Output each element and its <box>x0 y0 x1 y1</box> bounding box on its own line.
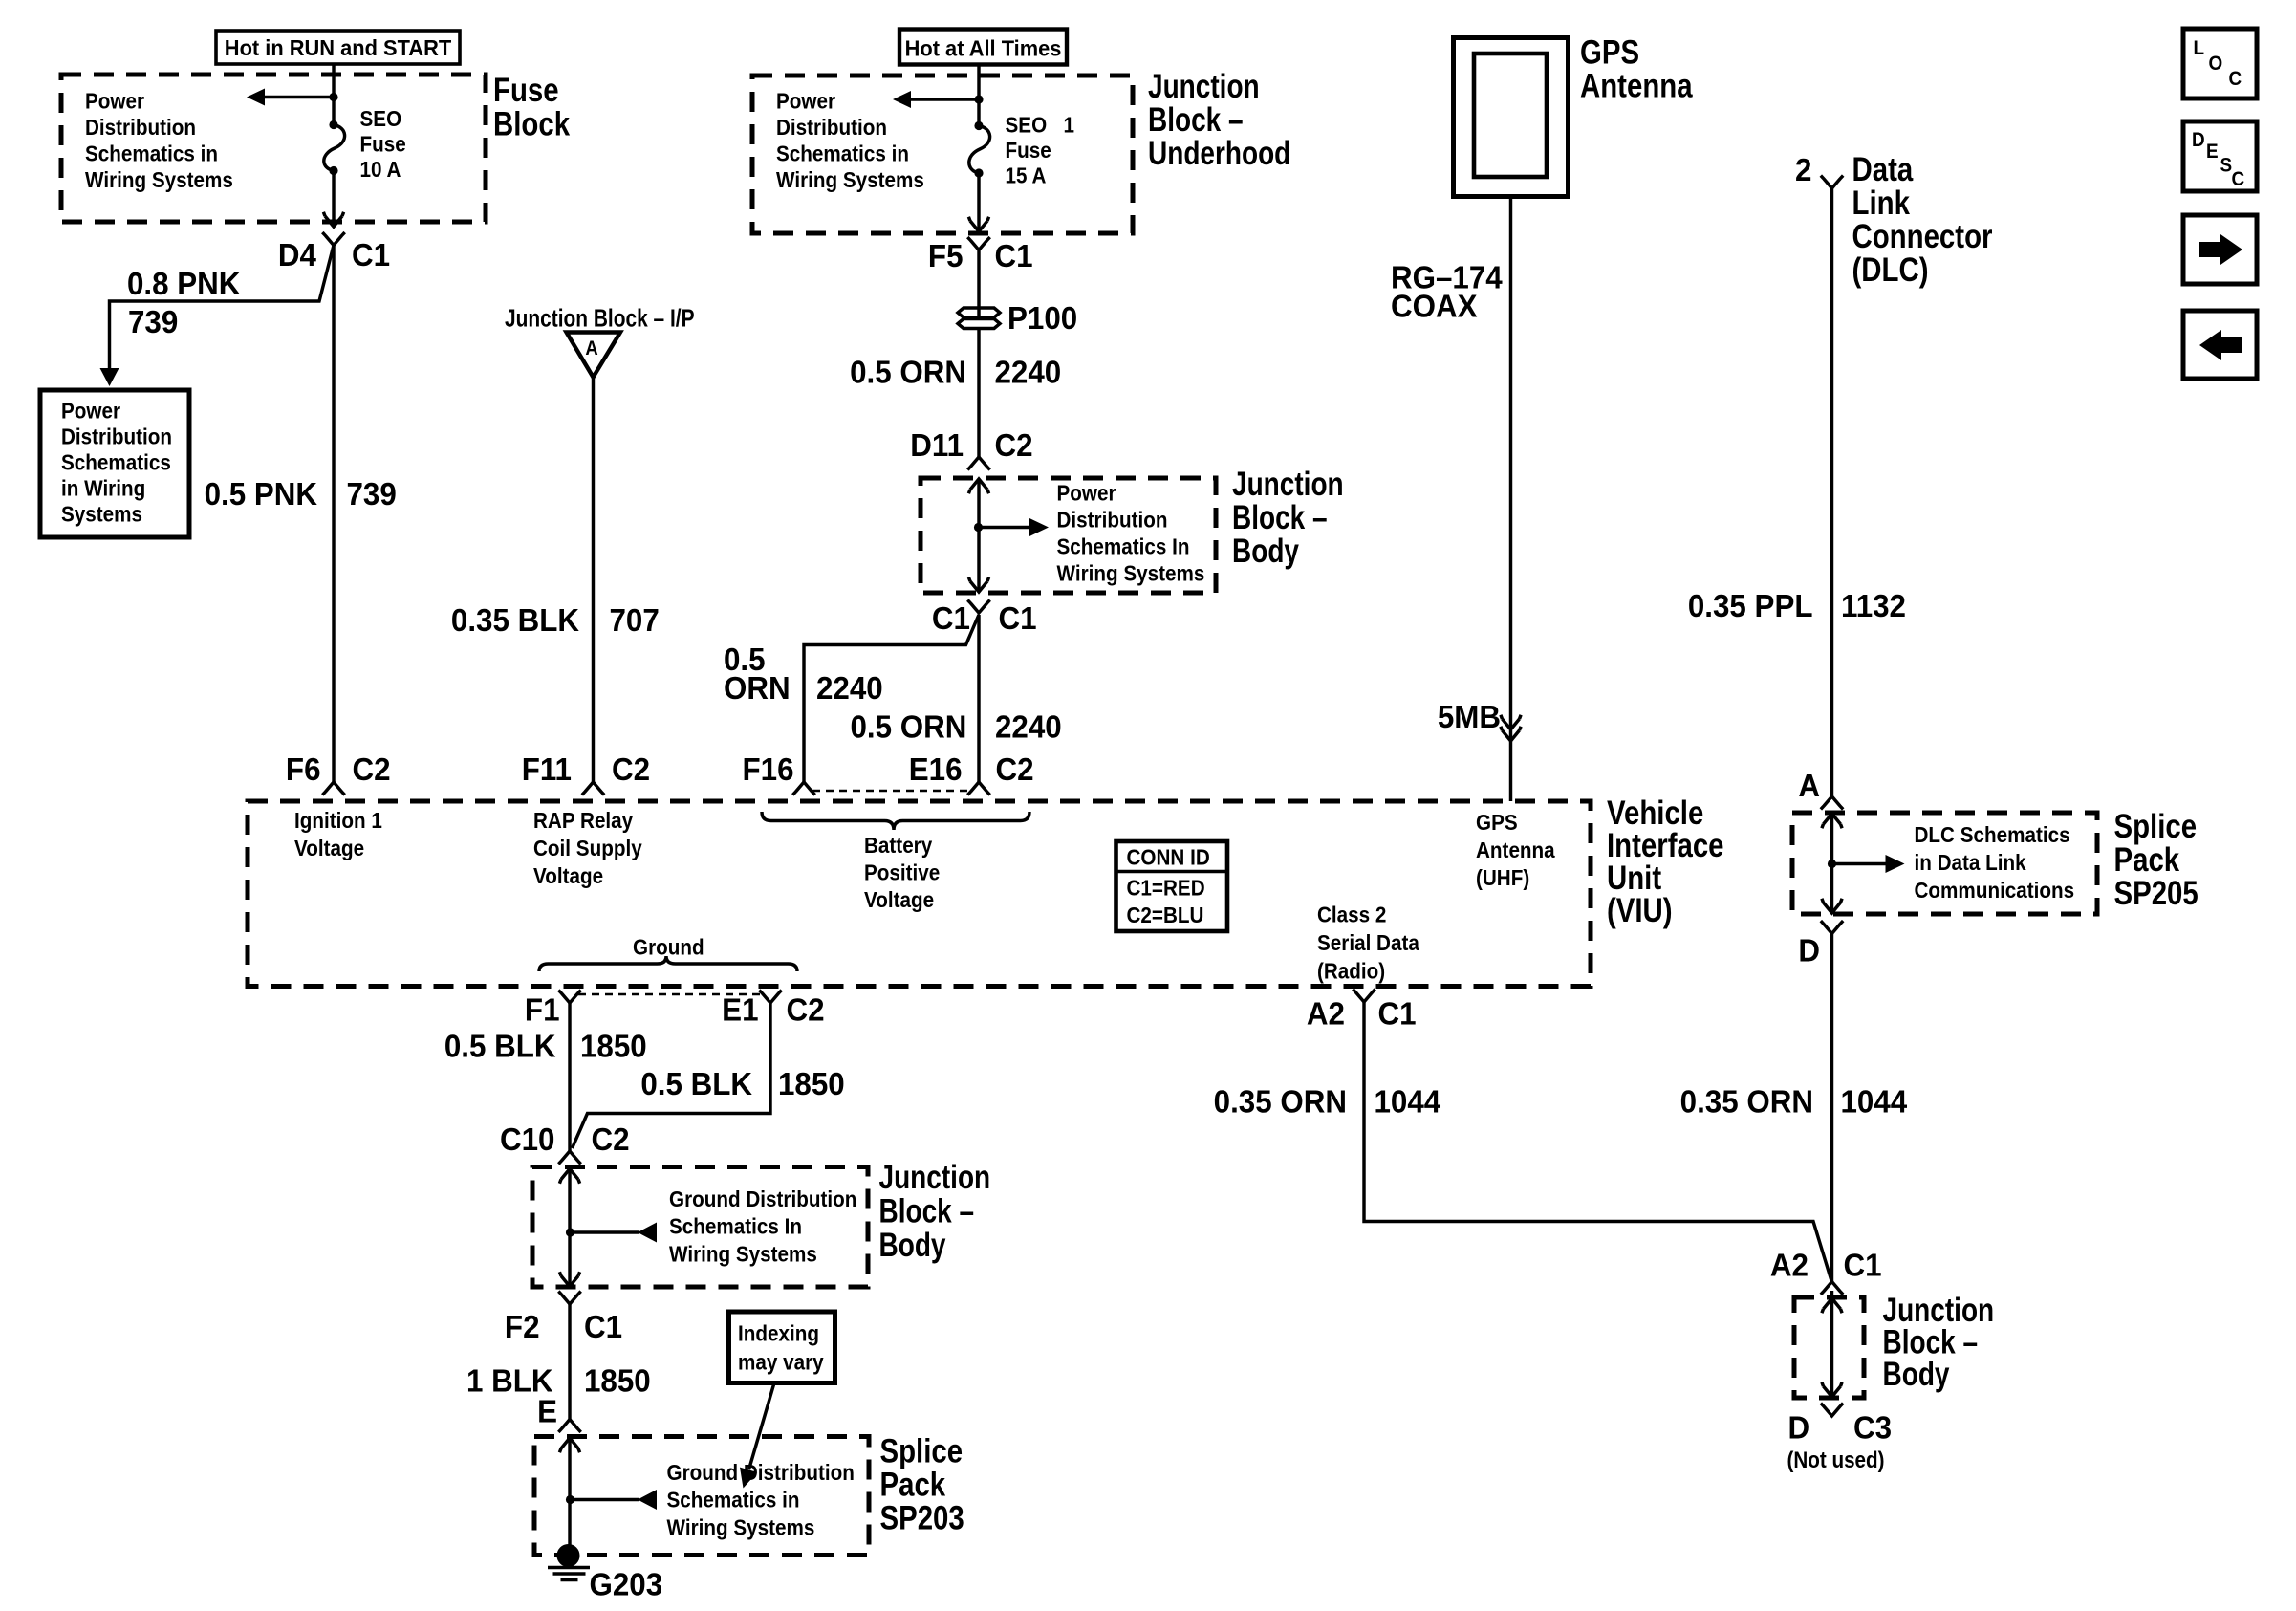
junction block body label (ground) <box>879 1158 991 1264</box>
arrow from indexing note to splice pack <box>740 1383 774 1489</box>
SP203 note "Ground Distribution Schematics in Wiring Systems" <box>667 1460 855 1540</box>
wire label 0.5 BLK 1850 (E1) <box>640 1066 844 1101</box>
svg-text:Class 2: Class 2 <box>1317 902 1386 927</box>
fuse SEO 1 15 A symbol <box>969 121 990 178</box>
grommet pass-through P100 symbol <box>958 307 1000 331</box>
svg-text:Wiring Systems: Wiring Systems <box>85 167 233 193</box>
svg-text:2240: 2240 <box>816 670 883 706</box>
wire label 0.35 BLK 707 <box>451 602 660 638</box>
wire label 0.5 PNK 739 <box>205 476 397 512</box>
svg-text:CONN ID: CONN ID <box>1127 844 1210 870</box>
signal 5MB direction arrows <box>1501 715 1521 741</box>
arrow from ground distribution schematics note (SP203) <box>571 1490 658 1510</box>
svg-text:Link: Link <box>1852 185 1910 222</box>
svg-text:1044: 1044 <box>1375 1084 1441 1120</box>
svg-text:Block –: Block – <box>1232 498 1328 536</box>
wire connector F5 to pass-through P100 <box>977 250 980 308</box>
data link connector label <box>1852 151 1993 289</box>
svg-text:Hot at All Times: Hot at All Times <box>905 36 1062 61</box>
wire 1 BLK 1850 from F2 down to splice E <box>568 1304 571 1420</box>
connector D / C3 (not used) <box>1788 1404 1893 1446</box>
svg-text:Hot in RUN and START: Hot in RUN and START <box>225 35 452 60</box>
svg-text:A: A <box>585 337 597 359</box>
connector F11 / C2 at VIU <box>522 751 650 795</box>
svg-text:A: A <box>1798 768 1820 803</box>
junction dot in SP203 <box>566 1495 574 1504</box>
GPS antenna symbol (double box) <box>1454 38 1569 197</box>
svg-text:2: 2 <box>1795 152 1811 187</box>
power distribution schematics reference box <box>40 390 189 537</box>
wire label 0.5 ORN 2240 (branch, stacked) <box>724 642 883 706</box>
fuse block note "Power Distribution Schematics in Wiring Systems" <box>85 88 233 192</box>
svg-text:Power: Power <box>61 398 120 424</box>
connector F5 / C1 (underhood output) <box>928 237 1033 273</box>
wire RG-174 coax down to VIU <box>1509 197 1512 802</box>
splice pack SP203 dashed outline <box>534 1437 869 1556</box>
up arrow inside ground junction block <box>559 1169 579 1184</box>
up arrow inside SP203 <box>559 1438 579 1452</box>
wire label 0.5 ORN 2240 (lower) <box>851 709 1062 745</box>
svg-text:C: C <box>2232 168 2245 190</box>
junction dot in body junction block <box>974 523 983 532</box>
label box "Hot in RUN and START" <box>216 31 460 64</box>
svg-text:Ignition 1: Ignition 1 <box>294 808 382 834</box>
note (Not used) <box>1787 1448 1885 1473</box>
VIU pin note GPS Antenna (UHF) <box>1476 810 1555 891</box>
VIU pin note Class 2 Serial Data (Radio) <box>1317 902 1420 984</box>
connector F1 at VIU bottom <box>525 991 581 1028</box>
svg-text:F16: F16 <box>743 751 794 787</box>
svg-text:0.5 BLK: 0.5 BLK <box>640 1066 752 1101</box>
junction block I/P triangle A symbol <box>567 333 621 378</box>
svg-text:C2: C2 <box>787 992 825 1028</box>
svg-text:Schematics: Schematics <box>61 449 171 475</box>
svg-text:1: 1 <box>1064 112 1075 138</box>
label box "Hot at All Times" <box>899 30 1067 65</box>
svg-text:Body: Body <box>879 1226 946 1264</box>
svg-text:Body: Body <box>1232 532 1299 570</box>
fuse SEO 10 A symbol <box>324 120 345 175</box>
svg-text:(DLC): (DLC) <box>1852 251 1929 289</box>
wire label 0.5 ORN 2240 (upper) <box>850 355 1061 390</box>
svg-text:0.5 ORN: 0.5 ORN <box>851 709 967 745</box>
svg-text:1850: 1850 <box>580 1029 647 1064</box>
connector A at splice pack SP205 <box>1798 768 1843 809</box>
connector C10 / C2 (body junction block ground) <box>500 1121 630 1164</box>
svg-text:E: E <box>2206 141 2219 163</box>
junction dot in SP205 <box>1828 860 1836 868</box>
svg-text:Battery: Battery <box>864 833 933 859</box>
underhood note "Power Distribution Schematics in Wiring Systems" <box>776 88 924 192</box>
SP205 note "DLC Schematics in Data Link Communications" <box>1915 822 2075 903</box>
svg-text:C1: C1 <box>932 600 970 636</box>
connector E at splice pack SP203 <box>537 1394 581 1432</box>
connector A2 / C1 at VIU bottom <box>1307 990 1417 1032</box>
svg-text:1044: 1044 <box>1841 1084 1908 1120</box>
wire label 0.35 ORN 1044 (right) <box>1680 1084 1908 1120</box>
GPS antenna label <box>1580 33 1694 104</box>
VIU pin note Battery Positive Voltage <box>864 833 940 913</box>
vehicle interface unit dashed outline <box>248 801 1591 987</box>
svg-text:2240: 2240 <box>995 355 1062 390</box>
wire 0.5 PNK 739 down to VIU pin F6 <box>332 246 335 783</box>
svg-text:C2: C2 <box>592 1121 630 1157</box>
fuse block dashed outline <box>61 75 486 222</box>
svg-text:Schematics in: Schematics in <box>667 1487 800 1513</box>
svg-text:may vary: may vary <box>738 1349 824 1375</box>
junction block body dashed outline (bottom right) <box>1794 1297 1864 1398</box>
svg-text:DLC Schematics: DLC Schematics <box>1915 822 2070 848</box>
svg-text:RAP Relay: RAP Relay <box>533 808 634 834</box>
junction block body dashed outline (power) <box>921 478 1216 593</box>
svg-text:Distribution: Distribution <box>85 115 196 141</box>
svg-text:Underhood: Underhood <box>1148 134 1290 172</box>
arrow to power distribution schematics (left) <box>247 89 334 106</box>
svg-text:S: S <box>2220 154 2233 176</box>
svg-text:739: 739 <box>347 476 397 512</box>
wire 0.35 BLK 707 down to VIU pin F11 <box>592 378 595 783</box>
svg-text:Schematics in: Schematics in <box>85 141 218 166</box>
svg-text:Power: Power <box>1057 480 1116 506</box>
svg-text:Fuse: Fuse <box>360 131 406 157</box>
arrow to DLC schematics <box>1832 855 1905 873</box>
svg-text:D: D <box>2192 129 2205 151</box>
svg-text:Coil Supply: Coil Supply <box>533 836 642 861</box>
connector D11 / C2 (body junction block top) <box>910 427 1032 469</box>
coax cable label RG-174 COAX <box>1391 260 1503 324</box>
svg-text:O: O <box>2209 53 2223 75</box>
svg-text:D: D <box>1788 1410 1810 1446</box>
svg-text:C1=RED: C1=RED <box>1127 875 1205 901</box>
svg-text:C1: C1 <box>352 237 390 272</box>
svg-text:A2: A2 <box>1307 996 1345 1032</box>
junction block body label (power) <box>1232 465 1344 570</box>
svg-text:2240: 2240 <box>995 709 1062 745</box>
svg-text:Fuse: Fuse <box>493 72 559 109</box>
svg-text:F2: F2 <box>505 1309 540 1344</box>
svg-text:Distribution: Distribution <box>776 115 887 141</box>
junction block underhood dashed outline <box>752 76 1133 233</box>
wire through SP203 to ground <box>568 1438 571 1556</box>
wire 0.35 PPL 1132 from DLC down to splice pack <box>1830 188 1833 797</box>
icon box DESC <box>2183 121 2257 191</box>
connector D4 / C1 (fuse block output) <box>278 232 390 272</box>
svg-text:Power: Power <box>85 88 144 114</box>
svg-text:F5: F5 <box>928 238 964 273</box>
arrow to power distribution schematics (body) <box>979 518 1050 536</box>
svg-text:C3: C3 <box>1853 1410 1892 1446</box>
pass-through label P100 <box>1007 300 1077 336</box>
svg-text:P100: P100 <box>1007 300 1077 336</box>
svg-text:Block –: Block – <box>879 1191 975 1230</box>
svg-text:Voltage: Voltage <box>864 887 934 913</box>
up arrow inside SP205 <box>1822 814 1842 828</box>
svg-text:Junction: Junction <box>1232 465 1344 503</box>
svg-text:1132: 1132 <box>1841 588 1906 623</box>
wire through ground junction block <box>568 1169 571 1287</box>
svg-text:C2: C2 <box>995 427 1033 463</box>
svg-text:Body: Body <box>1883 1355 1950 1393</box>
svg-text:E: E <box>537 1394 557 1429</box>
svg-text:Fuse: Fuse <box>1006 138 1051 163</box>
svg-text:0.5 BLK: 0.5 BLK <box>444 1029 556 1064</box>
splice pack SP205 dashed outline <box>1792 813 2097 914</box>
svg-text:Splice: Splice <box>880 1432 964 1469</box>
svg-text:E1: E1 <box>722 992 758 1028</box>
vehicle interface unit label <box>1607 795 1724 929</box>
icon box previous arrow <box>2183 311 2257 379</box>
brace battery positive voltage <box>762 812 1029 830</box>
svg-text:E16: E16 <box>909 751 963 787</box>
svg-text:Serial Data: Serial Data <box>1317 930 1420 956</box>
svg-text:in Wiring: in Wiring <box>61 475 145 501</box>
connector E16 / C2 at VIU <box>909 751 1034 795</box>
signal label 5MB <box>1438 699 1501 734</box>
arrowhead into power distribution box <box>100 368 119 386</box>
down arrow at ground junction block bottom <box>559 1272 579 1286</box>
connector A2 / C1 at body junction block <box>1770 1248 1882 1295</box>
svg-text:ORN: ORN <box>724 670 791 706</box>
svg-text:0.8 PNK: 0.8 PNK <box>127 266 240 301</box>
wire 0.5 BLK 1850 from F1 down to C10 <box>568 1003 571 1152</box>
svg-text:Schematics in: Schematics in <box>776 141 909 166</box>
wire through bottom right junction block <box>1822 1291 1842 1397</box>
ground G203 symbol <box>548 1544 590 1580</box>
svg-text:0.5 PNK: 0.5 PNK <box>205 476 317 512</box>
svg-text:SEO: SEO <box>1006 112 1048 138</box>
svg-text:0.35 ORN: 0.35 ORN <box>1214 1084 1347 1120</box>
svg-text:GPS: GPS <box>1580 33 1639 71</box>
wire through SP205 <box>1830 814 1833 913</box>
svg-text:(Radio): (Radio) <box>1317 958 1385 984</box>
connector id legend box CONN ID <box>1116 841 1228 931</box>
wire label 0.35 ORN 1044 (left) <box>1214 1084 1441 1120</box>
junction dot on battery feed <box>974 95 983 103</box>
up arrow inside body junction block <box>968 479 988 493</box>
svg-text:GPS: GPS <box>1476 810 1518 836</box>
svg-text:D11: D11 <box>910 427 964 463</box>
svg-text:Wiring Systems: Wiring Systems <box>1057 560 1205 586</box>
svg-text:C2: C2 <box>353 751 391 787</box>
svg-text:0.35 BLK: 0.35 BLK <box>451 602 579 638</box>
VIU note Ground <box>633 934 704 960</box>
svg-text:0.35 ORN: 0.35 ORN <box>1680 1084 1813 1120</box>
svg-text:F1: F1 <box>525 992 560 1028</box>
svg-text:F6: F6 <box>286 751 321 787</box>
svg-text:L: L <box>2194 37 2205 59</box>
wire 0.5 BLK 1850 from E1 joining C10 <box>573 1003 771 1149</box>
svg-text:A2: A2 <box>1770 1248 1809 1283</box>
arrow from ground distribution schematics note <box>571 1223 658 1243</box>
wire label 0.5 BLK 1850 (F1) <box>444 1029 647 1064</box>
splice pack SP203 label <box>880 1432 964 1536</box>
wire 0.5 ORN 2240 down to connector D11 <box>977 331 980 457</box>
connector F6 / C2 at VIU <box>286 751 391 795</box>
svg-text:Wiring Systems: Wiring Systems <box>669 1241 817 1267</box>
junction dot on ignition feed <box>329 93 337 101</box>
wire label 0.8 PNK 739 <box>127 266 240 339</box>
pin 2 label of DLC <box>1795 152 1811 187</box>
svg-text:F11: F11 <box>522 751 572 787</box>
junction block body label (bottom right) <box>1883 1291 1995 1393</box>
svg-text:1850: 1850 <box>584 1363 651 1399</box>
svg-text:Junction: Junction <box>1148 67 1260 105</box>
svg-text:C: C <box>2229 68 2242 90</box>
svg-text:G203: G203 <box>590 1567 663 1602</box>
svg-text:Antenna: Antenna <box>1476 838 1555 863</box>
svg-text:(UHF): (UHF) <box>1476 865 1529 891</box>
body junction note "Power Distribution Schematics In Wiring Systems" <box>1057 480 1205 586</box>
wire through body junction block <box>977 479 980 592</box>
svg-text:Pack: Pack <box>880 1466 946 1503</box>
svg-text:C1: C1 <box>1378 996 1417 1032</box>
wire branch 0.5 ORN 2240 to VIU pin F16 <box>804 615 979 782</box>
svg-text:(Not used): (Not used) <box>1787 1448 1885 1473</box>
down arrow at body junction block bottom <box>968 577 988 592</box>
fuse SEO 1 15 A value label <box>1006 112 1075 188</box>
svg-text:0.5 ORN: 0.5 ORN <box>850 355 966 390</box>
svg-text:Indexing: Indexing <box>738 1320 819 1346</box>
svg-text:SP205: SP205 <box>2114 875 2199 912</box>
wire 0.8 PNK 739 branch to power distribution <box>110 246 335 369</box>
ground label G203 <box>590 1567 663 1602</box>
svg-text:Ground Distribution: Ground Distribution <box>667 1460 855 1486</box>
splice pack SP205 label <box>2114 808 2199 912</box>
svg-text:C10: C10 <box>500 1121 554 1157</box>
arrow to power distribution schematics (middle) <box>893 91 979 108</box>
svg-text:Antenna: Antenna <box>1580 67 1694 104</box>
svg-text:Wiring Systems: Wiring Systems <box>776 167 924 193</box>
svg-text:739: 739 <box>128 304 178 339</box>
down arrow at SP205 bottom <box>1822 899 1842 913</box>
connector D below SP205 <box>1798 921 1843 969</box>
icon box next arrow <box>2183 215 2257 284</box>
brace ground <box>539 956 797 971</box>
svg-text:0.35 PPL: 0.35 PPL <box>1688 588 1813 623</box>
svg-text:Block: Block <box>493 105 570 142</box>
svg-text:707: 707 <box>610 602 660 638</box>
svg-text:Block –: Block – <box>1148 100 1244 139</box>
svg-text:SP203: SP203 <box>880 1499 964 1536</box>
junction block I/P label <box>505 305 695 332</box>
wire fuse output to connector D4 <box>323 171 343 228</box>
connector C1 / C1 (body junction block bottom) <box>932 600 1037 637</box>
svg-text:Connector: Connector <box>1852 218 1993 255</box>
svg-text:Voltage: Voltage <box>533 863 603 889</box>
svg-text:15 A: 15 A <box>1006 163 1047 188</box>
svg-text:C1: C1 <box>999 600 1037 636</box>
wire 0.35 ORN 1044 from VIU A2 to body junction block <box>1364 1002 1831 1280</box>
svg-text:Communications: Communications <box>1915 878 2075 903</box>
junction block underhood label <box>1148 67 1290 172</box>
svg-text:C2: C2 <box>996 751 1034 787</box>
note box "Indexing may vary" <box>729 1312 835 1383</box>
wire from Hot in RUN feed down to fuse <box>332 64 335 125</box>
svg-text:Systems: Systems <box>61 501 142 527</box>
junction dot in ground junction block <box>566 1228 574 1236</box>
icon box LOC <box>2183 29 2257 98</box>
svg-text:Wiring Systems: Wiring Systems <box>667 1514 815 1540</box>
wire 0.35 ORN 1044 from SP205 down to body junction block <box>1830 934 1833 1282</box>
svg-text:Distribution: Distribution <box>61 424 172 449</box>
internal tie line between F1 and E1 <box>578 993 762 996</box>
svg-text:COAX: COAX <box>1391 289 1478 324</box>
svg-text:10 A: 10 A <box>360 157 401 183</box>
svg-text:Junction Block – I/P: Junction Block – I/P <box>505 305 695 332</box>
svg-text:Schematics In: Schematics In <box>1057 533 1190 559</box>
fuse SEO 10 A value label <box>360 106 406 183</box>
svg-text:Junction: Junction <box>879 1158 991 1196</box>
svg-text:Splice: Splice <box>2114 808 2198 845</box>
connector pin 2 fork at DLC <box>1821 176 1843 188</box>
svg-text:5MB: 5MB <box>1438 699 1501 734</box>
wire from Hot at All Times feed down to fuse SEO 1 <box>977 65 980 126</box>
connector E1 / C2 at VIU bottom <box>722 991 824 1028</box>
svg-text:(VIU): (VIU) <box>1607 892 1673 929</box>
svg-text:Distribution: Distribution <box>1057 507 1168 533</box>
svg-text:Ground Distribution: Ground Distribution <box>669 1186 856 1212</box>
svg-text:Schematics In: Schematics In <box>669 1213 802 1239</box>
connector F16 at VIU <box>743 751 815 795</box>
svg-text:C1: C1 <box>584 1309 622 1344</box>
svg-text:Pack: Pack <box>2114 841 2180 879</box>
wire label 0.35 PPL 1132 <box>1688 588 1906 623</box>
VIU pin note RAP Relay Coil Supply Voltage <box>533 808 642 889</box>
wire fuse SEO 1 output to connector F5 <box>968 173 988 231</box>
svg-text:SEO: SEO <box>360 106 402 132</box>
svg-text:D: D <box>1798 933 1820 969</box>
svg-text:Positive: Positive <box>864 860 940 885</box>
connector F2 / C1 below ground junction block <box>505 1292 622 1345</box>
svg-text:Data: Data <box>1852 151 1915 188</box>
fuse block label <box>493 72 570 142</box>
svg-text:Voltage: Voltage <box>294 836 364 861</box>
svg-text:C1: C1 <box>1844 1248 1882 1283</box>
svg-text:C2=BLU: C2=BLU <box>1127 903 1204 928</box>
ground junction note "Ground Distribution Schematics In Wiring Systems" <box>669 1186 856 1267</box>
svg-text:Ground: Ground <box>633 934 704 960</box>
wire label 1 BLK 1850 <box>466 1363 651 1399</box>
wire 0.5 ORN 2240 down to VIU pin E16 <box>977 615 980 782</box>
svg-text:1850: 1850 <box>778 1066 845 1101</box>
svg-text:C1: C1 <box>995 238 1033 273</box>
svg-text:D4: D4 <box>278 237 316 272</box>
VIU pin note Ignition 1 Voltage <box>294 808 382 861</box>
svg-text:in Data Link: in Data Link <box>1915 850 2027 876</box>
svg-text:Power: Power <box>776 88 835 114</box>
svg-text:C2: C2 <box>612 751 650 787</box>
internal tie line between F16 and E16 <box>812 790 970 793</box>
junction block body dashed outline (ground) <box>532 1167 868 1288</box>
